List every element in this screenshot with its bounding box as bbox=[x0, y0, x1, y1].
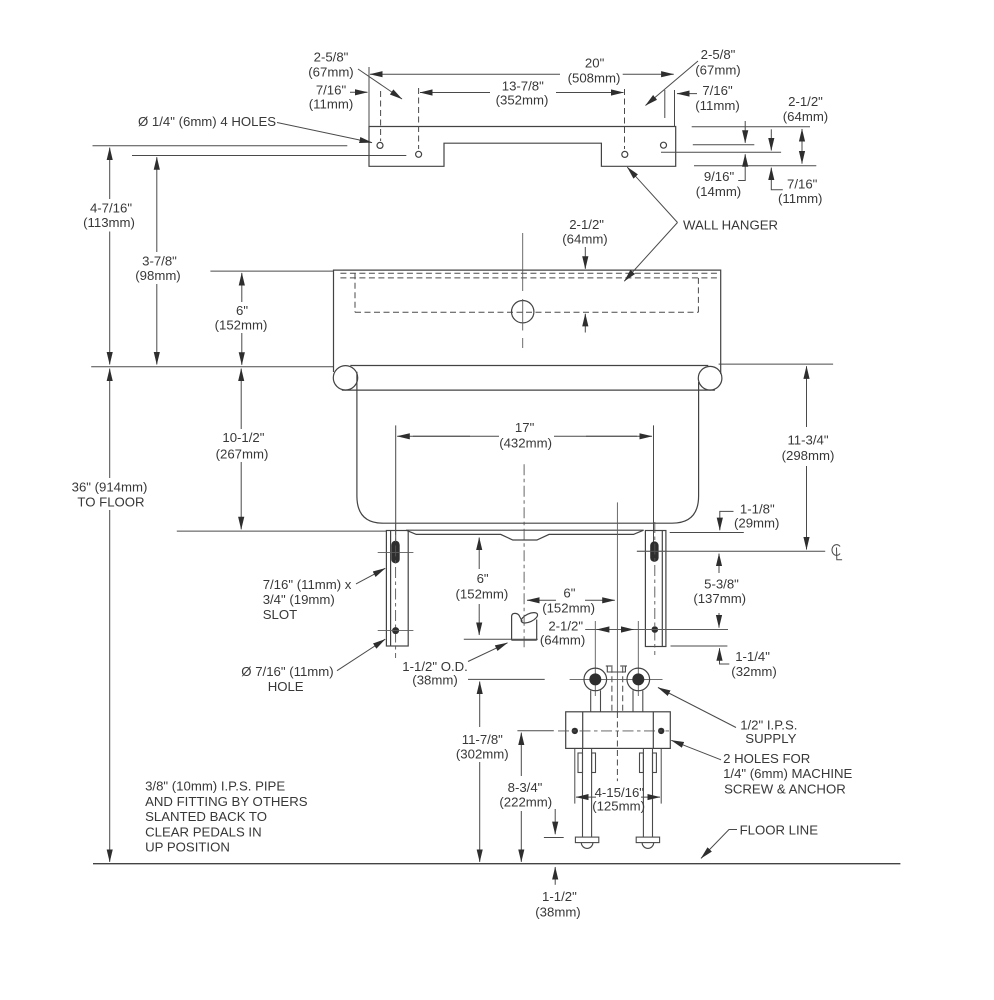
right bracket slot bbox=[650, 541, 658, 562]
svg-text:(11mm): (11mm) bbox=[695, 98, 739, 113]
dimension 1-1/2" (38mm) bbox=[544, 837, 564, 839]
svg-text:Ø 1/4" (6mm) 4 HOLES: Ø 1/4" (6mm) 4 HOLES bbox=[138, 114, 276, 129]
dimension 1-1/4" (32mm) bbox=[671, 645, 728, 647]
svg-text:(11mm): (11mm) bbox=[778, 191, 822, 206]
svg-text:2-5/8": 2-5/8" bbox=[314, 50, 349, 65]
manifold block bbox=[566, 712, 671, 749]
svg-text:UP POSITION: UP POSITION bbox=[145, 840, 230, 855]
svg-text:9/16": 9/16" bbox=[704, 169, 735, 184]
right reference line B bbox=[693, 144, 755, 146]
rolled rim right end bbox=[698, 366, 722, 390]
left leg sleeve bbox=[578, 753, 583, 773]
dimension 17" (432mm) bbox=[395, 425, 397, 546]
svg-text:1-1/2" O.D.: 1-1/2" O.D. bbox=[402, 659, 468, 674]
svg-text:11-7/8": 11-7/8" bbox=[462, 732, 503, 747]
plate hole 4 bbox=[661, 142, 667, 148]
svg-text:(67mm): (67mm) bbox=[308, 65, 353, 80]
left bracket hole crosshair bbox=[378, 630, 414, 632]
svg-text:6": 6" bbox=[477, 571, 489, 586]
left bracket slot crosshair bbox=[378, 552, 414, 554]
left supply pipe circle bbox=[584, 668, 607, 691]
svg-text:3-7/8": 3-7/8" bbox=[142, 254, 177, 269]
right bracket centerline bbox=[654, 522, 656, 655]
svg-text:(222mm): (222mm) bbox=[499, 794, 552, 809]
svg-text:13-7/8": 13-7/8" bbox=[502, 79, 544, 94]
svg-text:(302mm): (302mm) bbox=[456, 746, 509, 761]
dimension 7/16" (11mm) lower right bbox=[770, 129, 772, 150]
svg-text:6": 6" bbox=[563, 586, 575, 601]
extension line solid right plate edge bbox=[674, 90, 676, 127]
plate hole 3 bbox=[622, 151, 628, 157]
plate hole 2 bbox=[416, 151, 422, 157]
faucet centerline bbox=[522, 233, 524, 291]
svg-text:(14mm): (14mm) bbox=[696, 184, 741, 199]
right bracket slot crosshair bbox=[637, 550, 667, 552]
extension line solid hole4 bbox=[664, 90, 666, 118]
svg-text:7/16" (11mm) x: 7/16" (11mm) x bbox=[263, 577, 352, 592]
svg-text:8-3/4": 8-3/4" bbox=[508, 780, 543, 795]
dimension 4-15/16" (125mm) bbox=[574, 749, 576, 804]
svg-text:(152mm): (152mm) bbox=[456, 587, 509, 602]
rolled rim top line bbox=[350, 365, 708, 367]
svg-text:SUPPLY: SUPPLY bbox=[745, 731, 796, 746]
dimension 20" (508mm) bbox=[370, 73, 560, 75]
svg-text:(38mm): (38mm) bbox=[535, 905, 580, 920]
svg-text:2-1/2": 2-1/2" bbox=[569, 217, 604, 232]
drain pipe stub 1-1/2 OD bbox=[512, 613, 523, 640]
right reference line C bbox=[661, 151, 781, 153]
hidden wall hanger dashed top line 1 bbox=[340, 272, 717, 274]
floor line bbox=[93, 863, 900, 865]
reference line for 8-3/4 bbox=[517, 730, 553, 732]
svg-text:10-1/2": 10-1/2" bbox=[222, 430, 264, 445]
extension line solid left plate edge bbox=[368, 67, 370, 127]
svg-text:CLEAR PEDALS IN: CLEAR PEDALS IN bbox=[145, 824, 262, 839]
svg-text:(38mm): (38mm) bbox=[412, 673, 457, 688]
svg-text:(125mm): (125mm) bbox=[592, 799, 645, 814]
svg-text:11-3/4": 11-3/4" bbox=[787, 433, 828, 448]
svg-text:(32mm): (32mm) bbox=[731, 664, 776, 679]
svg-text:3/4" (19mm): 3/4" (19mm) bbox=[263, 592, 335, 607]
svg-text:(64mm): (64mm) bbox=[540, 632, 585, 647]
right leg rod bbox=[642, 748, 644, 837]
left bracket centerline bbox=[395, 524, 397, 658]
svg-text:(98mm): (98mm) bbox=[135, 268, 180, 283]
svg-text:(137mm): (137mm) bbox=[693, 591, 746, 606]
right foot bbox=[636, 837, 659, 843]
svg-text:HOLE: HOLE bbox=[268, 679, 304, 694]
svg-text:SLOT: SLOT bbox=[263, 607, 297, 622]
svg-text:6": 6" bbox=[236, 303, 248, 318]
svg-text:(29mm): (29mm) bbox=[734, 516, 779, 531]
left foot bbox=[575, 837, 598, 843]
left reference line upper bbox=[93, 145, 348, 147]
svg-text:4-7/16": 4-7/16" bbox=[90, 201, 132, 216]
manifold anchor hole right bbox=[658, 728, 664, 734]
left wall bracket bbox=[386, 531, 408, 647]
right reference line A bbox=[692, 126, 810, 128]
svg-text:TO FLOOR: TO FLOOR bbox=[77, 495, 144, 510]
svg-text:1-1/2": 1-1/2" bbox=[542, 889, 577, 904]
extension line dashed hole2 bbox=[418, 88, 420, 149]
dimension 11-3/4" (298mm) bbox=[719, 363, 834, 365]
svg-text:1/4" (6mm) MACHINE: 1/4" (6mm) MACHINE bbox=[723, 766, 852, 781]
reference line at drain elbow top bbox=[464, 638, 538, 640]
plate hole 1 bbox=[377, 142, 383, 148]
svg-text:7/16": 7/16" bbox=[702, 83, 733, 98]
svg-text:(267mm): (267mm) bbox=[216, 447, 269, 462]
hidden wall hanger dashed top line 2 bbox=[340, 277, 717, 279]
svg-text:SLANTED BACK TO: SLANTED BACK TO bbox=[145, 809, 267, 824]
svg-text:(113mm): (113mm) bbox=[83, 215, 135, 230]
reference line 6" top bbox=[210, 270, 333, 272]
rolled rim bottom line bbox=[342, 389, 715, 391]
svg-text:1-1/8": 1-1/8" bbox=[740, 502, 775, 517]
svg-text:7/16": 7/16" bbox=[787, 176, 818, 191]
supply reference line for 11-7/8 bbox=[468, 678, 545, 680]
svg-text:AND FITTING BY OTHERS: AND FITTING BY OTHERS bbox=[145, 794, 308, 809]
bowl bottom strip lower edge with drain dip bbox=[406, 530, 643, 540]
right bracket hole bbox=[652, 626, 659, 633]
right leg sleeve bbox=[640, 753, 644, 773]
right supply centerline extension bbox=[637, 621, 639, 696]
svg-text:2 HOLES FOR: 2 HOLES FOR bbox=[723, 751, 810, 766]
faucet hole bbox=[512, 301, 534, 323]
dimension 9/16" (14mm) bbox=[744, 121, 746, 143]
centerline CL long line bbox=[637, 550, 825, 552]
hidden supply pipe dashed lines bbox=[611, 667, 613, 712]
svg-text:17": 17" bbox=[515, 420, 535, 435]
hidden wall hanger dashed right edge bbox=[697, 278, 699, 312]
svg-text:WALL HANGER: WALL HANGER bbox=[683, 218, 778, 233]
left bracket hole bbox=[392, 627, 399, 634]
right supply pipe walls bbox=[632, 690, 634, 712]
svg-text:(64mm): (64mm) bbox=[562, 232, 607, 247]
svg-text:(508mm): (508mm) bbox=[568, 71, 621, 86]
svg-text:(152mm): (152mm) bbox=[215, 318, 268, 333]
supply crosshair horizontal bbox=[570, 678, 663, 680]
svg-text:5-3/8": 5-3/8" bbox=[704, 577, 739, 592]
left leg rod bbox=[582, 748, 584, 837]
sink back panel bbox=[334, 270, 721, 374]
wall hanger plate outline (top front view) bbox=[369, 127, 676, 167]
hidden wall hanger dashed left edge bbox=[354, 273, 356, 312]
left supply pipe walls bbox=[590, 691, 592, 712]
centerline symbol bbox=[832, 545, 840, 556]
hidden wall hanger dashed bottom bbox=[355, 311, 698, 313]
supply group centerline bbox=[616, 502, 618, 712]
svg-text:(64mm): (64mm) bbox=[783, 109, 828, 124]
svg-text:FLOOR LINE: FLOOR LINE bbox=[740, 823, 819, 838]
svg-text:SCREW & ANCHOR: SCREW & ANCHOR bbox=[724, 782, 846, 797]
drain centerline bbox=[523, 464, 525, 650]
svg-text:20": 20" bbox=[585, 56, 605, 71]
reference line hanger bottom left bbox=[91, 366, 333, 368]
svg-text:36" (914mm): 36" (914mm) bbox=[72, 480, 148, 495]
manifold anchor hole left bbox=[572, 728, 578, 734]
svg-text:2-5/8": 2-5/8" bbox=[701, 47, 736, 62]
svg-text:(298mm): (298mm) bbox=[782, 448, 835, 463]
dimension 1-1/8" (29mm) bbox=[670, 532, 744, 534]
extension line dashed hole1 bbox=[380, 91, 382, 141]
right wall bracket bbox=[645, 531, 666, 647]
svg-text:(152mm): (152mm) bbox=[542, 601, 595, 616]
right reference line D bbox=[694, 165, 816, 167]
rolled rim left end bbox=[333, 366, 357, 390]
reference line bowl-bottom left bbox=[177, 530, 387, 532]
left reference line lower bbox=[132, 155, 406, 157]
dimension 13-7/8" (352mm) bbox=[420, 92, 490, 94]
bracket fitting between supplies bbox=[606, 665, 613, 667]
svg-text:(352mm): (352mm) bbox=[496, 92, 549, 107]
extension line dashed hole3 bbox=[624, 89, 626, 149]
svg-text:(432mm): (432mm) bbox=[499, 436, 552, 451]
right supply pipe circle bbox=[627, 668, 650, 691]
bowl bottom strip top edge bbox=[406, 529, 643, 531]
svg-text:(67mm): (67mm) bbox=[695, 63, 740, 78]
svg-text:(11mm): (11mm) bbox=[309, 97, 353, 112]
svg-text:Ø 7/16" (11mm): Ø 7/16" (11mm) bbox=[241, 664, 333, 679]
svg-text:7/16": 7/16" bbox=[316, 83, 347, 98]
svg-text:3/8" (10mm) I.P.S. PIPE: 3/8" (10mm) I.P.S. PIPE bbox=[145, 779, 285, 794]
svg-text:2-1/2": 2-1/2" bbox=[788, 94, 823, 109]
left bracket slot bbox=[391, 541, 399, 564]
crosshair through right bracket hole and 2-1/2 supply dim line bbox=[585, 629, 728, 631]
bowl body bbox=[357, 372, 699, 523]
left supply centerline extension bbox=[594, 621, 596, 696]
svg-text:1-1/4": 1-1/4" bbox=[735, 649, 770, 664]
manifold centerline bbox=[558, 730, 669, 732]
